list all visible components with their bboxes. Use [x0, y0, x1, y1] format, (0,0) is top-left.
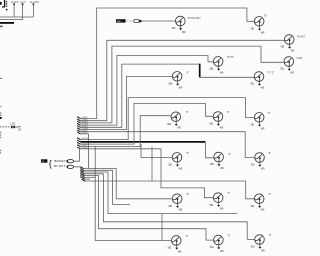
wire stub node B: [22, 4, 24, 19]
thick wire A10 bus: [80, 141, 205, 143]
wire A11 bus to S9: [80, 104, 213, 145]
wire A1 bus to S2: [80, 8, 254, 119]
wire B5 bus to S18: [84, 176, 214, 241]
wire B3 open row: [84, 172, 238, 214]
key switch S7: [250, 72, 264, 90]
wire B8 bus to S16: [84, 181, 255, 199]
svg-text:"9": "9": [268, 194, 271, 196]
key switch S3: [281, 35, 295, 53]
wire stub node C: [32, 4, 34, 17]
wire rail y19.6: [0, 19, 23, 21]
svg-text:TO "C": TO "C": [267, 73, 274, 75]
key switch S14: [169, 194, 183, 212]
edge text block 1: [0, 112, 2, 119]
wire to S12: [205, 142, 213, 158]
wire A7 row131 bus to S13: [80, 132, 254, 158]
key switch S17: [168, 236, 182, 254]
svg-text:J05: J05: [18, 129, 22, 131]
zigzag ladder bus A: [77, 117, 80, 149]
svg-text:TO ANT: TO ANT: [297, 35, 306, 38]
wire dashed mic cord: [127, 20, 134, 22]
plug P1: [134, 20, 141, 23]
wire B4 bus to S19: [84, 174, 255, 240]
wire A3 bus to S4: [80, 46, 283, 123]
svg-text:+24 VDC: +24 VDC: [30, 2, 40, 4]
wire drop to S17: [95, 147, 171, 241]
svg-text:W-BR3: W-BR3: [82, 147, 88, 149]
key switch S5: [210, 57, 224, 75]
svg-text:"9": "9": [227, 236, 230, 238]
bus A wire labels: [82, 117, 89, 149]
wire drop to S11: [141, 144, 172, 157]
key switch S8: [167, 112, 181, 130]
wire drop x162: [161, 214, 163, 241]
wire A9 bus to S10: [80, 98, 254, 140]
key switch S18: [210, 235, 224, 253]
wire A12 bus to S8: [80, 116, 171, 147]
svg-text:MIC: MIC: [117, 21, 121, 23]
junction dot node A: [13, 3, 15, 5]
junction dot node B: [22, 3, 24, 5]
wire B7 stub: [84, 178, 91, 180]
key switch S10: [251, 113, 265, 131]
svg-text:"9": "9": [186, 194, 189, 196]
wire plug P2 riser: [74, 147, 80, 161]
plug P3: [67, 165, 74, 168]
wire A8 short: [80, 134, 88, 169]
key switch S13: [251, 153, 265, 171]
svg-text:"9": "9": [186, 112, 189, 114]
svg-text:"9": "9": [227, 193, 230, 195]
wire A13 bus: [80, 148, 161, 150]
wire drop to S15: [161, 149, 213, 198]
key switch S11: [168, 153, 182, 171]
svg-text:"9": "9": [269, 235, 272, 237]
key switch S19: [251, 235, 265, 253]
wire drop x152: [151, 147, 153, 182]
wire B1 bus to S14: [84, 169, 173, 199]
edge label fragment: [0, 26, 3, 28]
capacitor C1 with dashed lead: [0, 124, 21, 129]
svg-text:"9": "9": [186, 153, 189, 155]
connector J1 black label box: [41, 159, 47, 163]
svg-text:HEADSET 8: HEADSET 8: [54, 160, 68, 163]
edge text block 3: [0, 150, 1, 154]
wire B6 stub: [84, 176, 96, 178]
wire A4 bus to S5: [80, 56, 213, 126]
wire A5 bus to S7: [80, 64, 199, 127]
edge text block 2: [0, 132, 1, 138]
svg-text:W-VT8: W-VT8: [82, 133, 88, 135]
microphone MIC1 black label box: [116, 19, 126, 23]
key switch S9: [209, 112, 223, 130]
svg-text:"9": "9": [185, 236, 188, 238]
plug P2: [67, 160, 74, 163]
wire rail y17: [0, 16, 33, 18]
svg-text:MIC SET 8: MIC SET 8: [54, 165, 66, 168]
edge tick y106: [0, 106, 1, 107]
key switch S12: [210, 152, 224, 170]
svg-text:{: {: [49, 159, 52, 169]
edge tick y78: [0, 78, 2, 79]
wire to S7: [200, 76, 255, 78]
wire plug P3 drop: [74, 167, 81, 178]
svg-text:"9": "9": [268, 153, 271, 155]
svg-text:C W1: C W1: [10, 124, 16, 126]
wire plug P1 to key S1: [142, 20, 176, 22]
svg-text:PH RIG KEY: PH RIG KEY: [188, 18, 202, 20]
terminal block TB1 (cropped, top-left corner): [0, 0, 7, 10]
thick ground bus bar: [0, 22, 14, 24]
wire A2 bus to S3: [80, 40, 284, 120]
wire A6 bus to S6: [80, 76, 172, 129]
wire B2 stub: [84, 170, 131, 204]
junction dot node C: [32, 3, 34, 5]
key switch S15: [210, 193, 224, 211]
thick riser S7: [199, 64, 201, 78]
key switch S4: [280, 57, 294, 75]
key switch S1: [172, 16, 186, 34]
key switch S6: [169, 72, 183, 90]
wire stub node A: [13, 4, 15, 17]
svg-text:1 ANT: 1 ANT: [296, 57, 303, 60]
svg-text:W-GY8: W-GY8: [82, 138, 88, 140]
svg-text:"B": "B": [264, 15, 267, 17]
svg-text:"9": "9": [227, 112, 230, 114]
svg-text:"9": "9": [268, 113, 271, 115]
svg-text:TO "B": TO "B": [227, 57, 234, 59]
svg-text:"9": "9": [228, 154, 231, 156]
key switch S2: [251, 17, 265, 35]
key switch S16: [251, 194, 265, 212]
zigzag ladder bus B: [80, 167, 85, 182]
svg-text:"9": "9": [186, 72, 189, 74]
